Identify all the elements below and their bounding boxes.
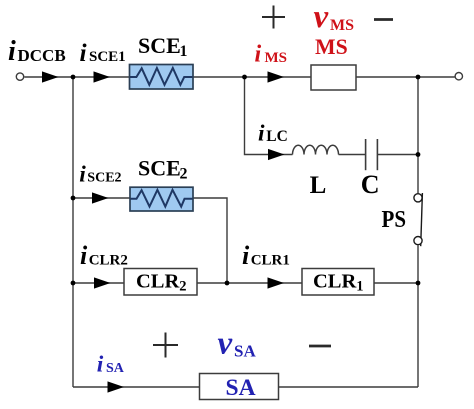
wire right rail upper bbox=[417, 77, 419, 193]
label minus vMS bbox=[374, 18, 393, 21]
svg-text:i: i bbox=[258, 120, 265, 146]
svg-text:v: v bbox=[218, 326, 233, 362]
svg-text:i: i bbox=[242, 241, 250, 270]
svg-text:2: 2 bbox=[180, 166, 188, 183]
svg-text:SCE1: SCE1 bbox=[89, 49, 126, 65]
arrow iCLR2 bbox=[94, 277, 111, 288]
arrow iSCE1 bbox=[94, 71, 111, 82]
arrow iSCE2 bbox=[92, 192, 109, 203]
svg-text:CLR1: CLR1 bbox=[313, 271, 364, 295]
svg-text:CLR2: CLR2 bbox=[89, 253, 128, 269]
svg-text:i: i bbox=[97, 351, 104, 377]
node junction LC right bbox=[416, 152, 421, 157]
svg-text:MS: MS bbox=[315, 35, 348, 59]
label plus vMS bbox=[262, 6, 285, 29]
svg-text:SA: SA bbox=[106, 361, 125, 376]
node junction top-right bbox=[416, 75, 421, 80]
wire bottom SA row bbox=[73, 386, 418, 388]
node junction CLR right bbox=[416, 281, 421, 286]
resistor SCE1 (superconducting element box) bbox=[130, 65, 194, 90]
inductor L bbox=[293, 145, 339, 154]
arrow iMS bbox=[268, 71, 285, 82]
arrow iSA bbox=[108, 381, 125, 392]
node junction LC drop bbox=[242, 75, 247, 80]
svg-text:LC: LC bbox=[266, 128, 288, 145]
node junction SCE2 left bbox=[71, 196, 76, 201]
arrow iCLR1 bbox=[268, 277, 285, 288]
svg-text:SCE2: SCE2 bbox=[87, 171, 121, 186]
switch PS bbox=[414, 193, 423, 246]
svg-text:PS: PS bbox=[382, 207, 407, 233]
svg-text:SCE: SCE bbox=[138, 155, 181, 180]
svg-text:MS: MS bbox=[265, 50, 288, 66]
svg-text:CLR2: CLR2 bbox=[136, 271, 187, 295]
svg-text:i: i bbox=[80, 38, 87, 67]
wire SCE2 row bbox=[73, 198, 227, 283]
svg-text:MS: MS bbox=[330, 17, 354, 34]
right terminal bbox=[455, 73, 462, 80]
svg-text:i: i bbox=[8, 36, 16, 67]
svg-text:SA: SA bbox=[226, 375, 256, 401]
svg-text:v: v bbox=[314, 0, 329, 35]
component SA box bbox=[200, 374, 279, 402]
svg-text:i: i bbox=[79, 161, 86, 187]
arrow iDCCB bbox=[42, 71, 59, 82]
component CLR1 box bbox=[302, 269, 374, 296]
svg-text:DCCB: DCCB bbox=[18, 46, 66, 65]
wire inductor to capacitor bbox=[339, 154, 366, 156]
left terminal bbox=[16, 73, 23, 80]
svg-text:L: L bbox=[310, 172, 327, 199]
wire LC branch drop bbox=[245, 77, 293, 155]
svg-text:i: i bbox=[80, 241, 88, 270]
svg-text:C: C bbox=[361, 170, 380, 199]
label minus vSA bbox=[309, 345, 331, 348]
svg-text:i: i bbox=[255, 42, 262, 68]
wire right rail lower bbox=[417, 245, 419, 387]
resistor SCE2 (superconducting element box) bbox=[130, 187, 193, 211]
component MS box bbox=[311, 65, 356, 90]
node junction top-left bbox=[71, 75, 76, 80]
wire top bus bbox=[24, 76, 454, 78]
component CLR2 box bbox=[124, 269, 197, 296]
svg-text:CLR1: CLR1 bbox=[251, 253, 290, 269]
arrow iLC bbox=[268, 149, 285, 160]
node junction CLR left bbox=[71, 281, 76, 286]
svg-text:1: 1 bbox=[180, 43, 188, 60]
capacitor C bbox=[366, 139, 378, 170]
wire left rail bbox=[72, 77, 74, 387]
wire capacitor to right rail bbox=[378, 154, 418, 156]
label plus vSA bbox=[153, 333, 178, 358]
wire CLR row bbox=[73, 282, 418, 284]
svg-text:SCE: SCE bbox=[138, 33, 181, 58]
node junction SCE2-CLR bbox=[225, 281, 230, 286]
svg-text:SA: SA bbox=[234, 341, 256, 360]
